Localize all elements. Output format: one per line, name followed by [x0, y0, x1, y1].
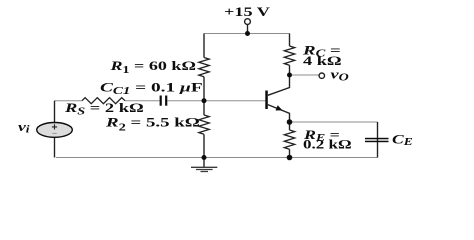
svg-text:R2 = 5.5 kΩ: R2 = 5.5 kΩ — [105, 115, 200, 133]
svg-text:CC1 = 0.1 μF: CC1 = 0.1 μF — [100, 80, 203, 97]
svg-text:vi: vi — [18, 120, 30, 135]
svg-text:4 kΩ: 4 kΩ — [303, 54, 342, 68]
svg-text:vO: vO — [331, 68, 349, 83]
svg-text:CE: CE — [392, 133, 413, 148]
svg-text:+15 V: +15 V — [224, 6, 271, 20]
svg-text:0.2 kΩ: 0.2 kΩ — [303, 138, 352, 152]
svg-text:R1 = 60 kΩ: R1 = 60 kΩ — [109, 59, 196, 75]
